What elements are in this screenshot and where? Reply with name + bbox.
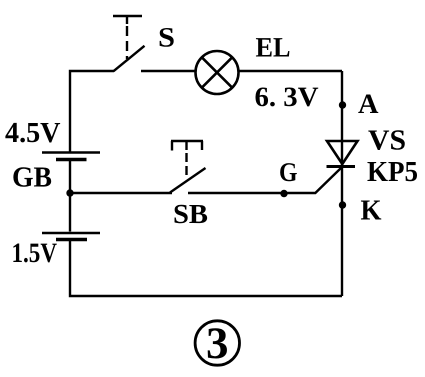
push button SB: [170, 141, 206, 193]
wire tap to push button: [70, 192, 172, 194]
svg-text:S: S: [158, 23, 175, 54]
svg-text:GB: GB: [12, 161, 52, 193]
figure number circle 3: [195, 318, 239, 368]
svg-text:VS: VS: [368, 125, 406, 157]
right rail wire: [341, 71, 343, 296]
node A: [339, 101, 346, 108]
battery GB cell 2 plates: [42, 233, 100, 240]
svg-text:6. 3V: 6. 3V: [255, 82, 319, 113]
gate wire: [188, 168, 341, 193]
svg-text:3: 3: [206, 318, 229, 368]
thyristor VS: [327, 141, 358, 167]
svg-text:EL: EL: [256, 33, 291, 64]
wire top-left corner (left rail to switch): [70, 71, 114, 152]
wire between cells: [69, 161, 71, 232]
battery GB cell 1 plates: [42, 153, 100, 160]
svg-text:1.5V: 1.5V: [12, 238, 58, 269]
svg-text:4.5V: 4.5V: [5, 117, 61, 149]
node K: [339, 201, 346, 208]
switch S: [113, 16, 145, 71]
lamp EL: [196, 51, 239, 94]
node G: [280, 190, 287, 197]
svg-text:KP5: KP5: [367, 156, 418, 188]
svg-text:A: A: [358, 89, 379, 120]
svg-text:G: G: [279, 157, 298, 187]
svg-text:K: K: [361, 195, 382, 227]
svg-text:SB: SB: [173, 198, 208, 229]
node battery tap: [66, 189, 73, 196]
wire switch to lamp: [141, 70, 196, 72]
bottom wire: [70, 241, 342, 296]
wire lamp to right rail: [239, 70, 343, 72]
